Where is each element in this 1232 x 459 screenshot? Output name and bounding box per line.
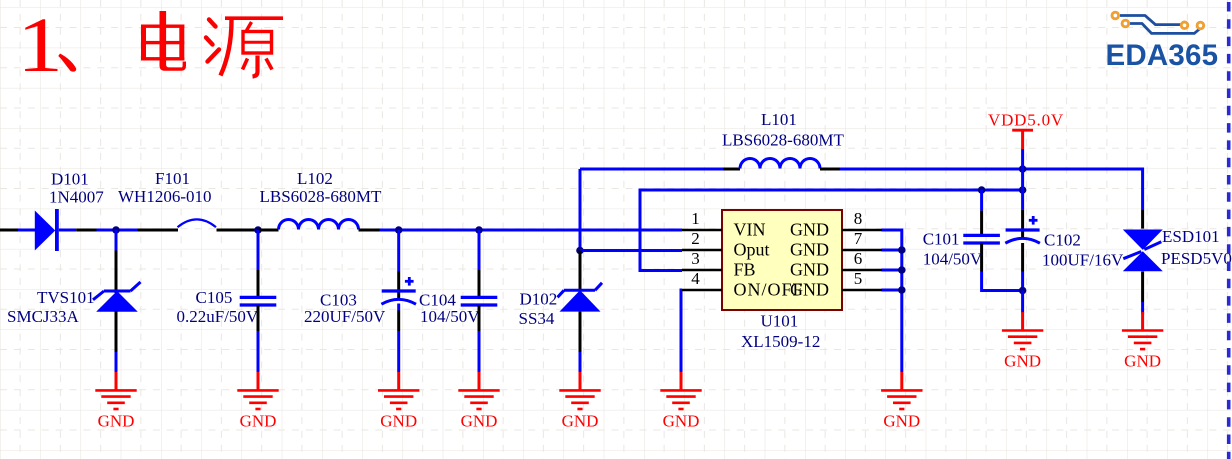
junction output gnd node	[1019, 287, 1027, 295]
ground GND C104	[458, 372, 499, 431]
power flag VDD5.0V	[1012, 130, 1033, 170]
title ideographic comma	[58, 54, 76, 72]
junction node D at C104	[475, 226, 483, 234]
svg-text:7: 7	[854, 229, 863, 248]
junction pin7	[898, 246, 906, 254]
wire switch node vertical from top rail to D102	[579, 169, 582, 251]
svg-text:L101: L101	[761, 110, 797, 129]
wire U101 pin7 stub	[882, 249, 902, 252]
wire TVS101 to ground	[115, 352, 118, 372]
capacitor C101	[963, 235, 1000, 243]
wire VDD node down to FB line	[1021, 169, 1024, 190]
svg-text:C102: C102	[1044, 231, 1081, 250]
svg-text:VDD5.0V: VDD5.0V	[988, 111, 1064, 130]
ground GND U101 pins5-8	[881, 372, 922, 431]
ground GND D102	[559, 372, 600, 431]
pin C101 top	[980, 211, 983, 236]
junction pin5	[898, 286, 906, 294]
wire U101 pin5 stub	[882, 289, 902, 292]
junction switch node at D102	[576, 247, 584, 255]
svg-text:GND: GND	[790, 280, 829, 300]
ground GND C103	[378, 372, 419, 431]
wire C101 bottom to output gnd node	[982, 272, 1023, 291]
svg-text:F101: F101	[155, 169, 190, 188]
svg-text:VIN: VIN	[734, 220, 766, 240]
wire output gnd node down	[1021, 291, 1024, 314]
pin TVS101 cathode	[115, 251, 118, 294]
wire FB feedback line	[640, 190, 1023, 271]
pin 6 line	[842, 269, 882, 272]
svg-text:GND: GND	[790, 240, 829, 260]
junction node C at C103	[395, 226, 403, 234]
TVS diode TVS101	[93, 282, 141, 312]
logo pad 3	[1181, 22, 1188, 29]
junction node A	[112, 226, 120, 234]
wire ESD101 to ground	[1141, 302, 1144, 314]
ground GND ESD101	[1122, 312, 1163, 371]
svg-text:100UF/16V: 100UF/16V	[1042, 251, 1124, 270]
svg-text:XL1509-12: XL1509-12	[741, 332, 820, 351]
inductor L102	[257, 220, 380, 231]
wire switch node to U101 pin2	[580, 249, 682, 252]
svg-text:6: 6	[854, 249, 863, 268]
wire L102 to U101 pin1 VIN rail	[380, 229, 683, 232]
wire node A down to TVS101	[115, 230, 118, 251]
wire L101 to VDD node and ESD101	[840, 169, 1143, 210]
pin 8 line	[842, 229, 882, 232]
diode D102	[558, 283, 603, 312]
pin C102 top	[1021, 210, 1024, 237]
svg-text:1N4007: 1N4007	[49, 188, 104, 207]
logo EDA365 trace lower	[1130, 24, 1200, 34]
junction FB at C102	[1019, 186, 1027, 194]
svg-text:0.22uF/50V: 0.22uF/50V	[177, 307, 259, 326]
pin C102 bottom	[1021, 243, 1024, 272]
title character yuan	[206, 18, 283, 76]
svg-text:3: 3	[691, 249, 700, 268]
svg-text:D102: D102	[520, 290, 558, 309]
pin C103 top	[397, 272, 400, 299]
pin TVS101 anode	[115, 311, 118, 352]
capacitor C102 polarized	[1005, 216, 1040, 243]
ground GND TVS101	[95, 372, 136, 431]
svg-text:WH1206-010: WH1206-010	[118, 187, 211, 206]
fuse F101	[138, 219, 258, 230]
pin C104 top	[478, 270, 481, 297]
logo EDA365 trace upper	[1120, 16, 1181, 25]
capacitor C104	[461, 297, 498, 305]
wire node C down to C103	[397, 230, 400, 272]
wire C102 bottom	[1021, 272, 1024, 291]
logo pad 2	[1122, 20, 1129, 27]
wire node B down to C105	[257, 230, 260, 270]
svg-text:1: 1	[691, 209, 700, 228]
IC U101 body	[722, 210, 842, 310]
svg-text:SS34: SS34	[519, 309, 555, 328]
pin 2 line	[682, 249, 722, 252]
pin C103 bottom	[397, 304, 400, 311]
wire U101 pin8 to gnd rail	[882, 230, 902, 372]
svg-text:ESD101: ESD101	[1162, 227, 1220, 246]
svg-text:4: 4	[691, 269, 700, 288]
wire C104 to ground	[478, 331, 481, 372]
svg-text:GND: GND	[790, 260, 829, 280]
pin C101 bottom	[980, 243, 983, 272]
junction VDD node	[1019, 165, 1027, 173]
wire D102 to ground	[579, 352, 582, 372]
pin D102 anode	[579, 312, 582, 352]
pin C105 top	[257, 270, 260, 297]
svg-text:104/50V: 104/50V	[923, 249, 983, 268]
pin 1 line	[682, 229, 722, 232]
svg-text:LBS6028-680MT: LBS6028-680MT	[722, 131, 844, 150]
inductor L101	[723, 159, 840, 170]
svg-text:FB: FB	[734, 260, 756, 280]
sheet boundary dashed line	[1227, 2, 1231, 459]
svg-text:SMCJ33A: SMCJ33A	[7, 307, 80, 326]
wire U101 pin6 stub	[882, 269, 902, 272]
svg-text:5: 5	[854, 269, 863, 288]
svg-text:C105: C105	[196, 288, 233, 307]
wire C103 to ground	[397, 331, 400, 372]
pin 4 line	[682, 289, 722, 292]
pin D102 cathode	[579, 251, 582, 291]
junction pin6	[898, 266, 906, 274]
svg-text:U101: U101	[761, 312, 799, 331]
capacitor C103 polarized	[381, 277, 416, 304]
svg-text:C101: C101	[923, 230, 960, 249]
svg-text:LBS6028-680MT: LBS6028-680MT	[260, 187, 382, 206]
logo pad 1	[1112, 12, 1119, 19]
pin C105 bottom	[257, 305, 260, 331]
wire node D down to C104	[478, 230, 481, 270]
svg-text:GND: GND	[790, 220, 829, 240]
wire C101 top	[980, 190, 983, 211]
svg-text:D101: D101	[51, 170, 89, 189]
wire input to D101 anode	[18, 229, 35, 232]
pin 3 line	[682, 269, 722, 272]
pin C104 bottom	[478, 305, 481, 331]
ground GND C105	[237, 372, 278, 431]
svg-text:2: 2	[691, 229, 700, 248]
svg-text:1: 1	[17, 2, 63, 88]
wire top from switch node to L101	[580, 168, 723, 171]
pin 7 line	[842, 249, 882, 252]
wire C105 to ground	[257, 331, 260, 372]
ground GND pin4	[660, 372, 701, 431]
svg-text:104/50V: 104/50V	[420, 307, 480, 326]
wire C102 top	[1021, 190, 1024, 210]
logo pad 4	[1197, 22, 1204, 29]
TVS diode ESD101	[1123, 230, 1163, 272]
junction FB at C101	[978, 186, 986, 194]
svg-text:L102: L102	[297, 169, 333, 188]
svg-text:Oput: Oput	[734, 240, 770, 260]
svg-text:EDA365: EDA365	[1106, 39, 1219, 72]
wire U101 pin4 to ground	[681, 290, 682, 372]
title character dian	[141, 11, 186, 71]
pin ESD101 top	[1141, 210, 1144, 229]
ground GND C101 C102	[1002, 312, 1043, 371]
capacitor C105	[240, 297, 277, 305]
wire D101 cathode to node A	[97, 229, 138, 232]
svg-text:PESD5V0: PESD5V0	[1161, 249, 1232, 268]
pin ESD101 bottom	[1141, 272, 1144, 303]
svg-text:TVS101: TVS101	[37, 288, 95, 307]
wire input stub	[0, 229, 18, 232]
svg-text:8: 8	[854, 209, 863, 228]
junction node B at C105	[254, 226, 262, 234]
svg-text:220UF/50V: 220UF/50V	[304, 307, 386, 326]
pin 5 line	[842, 289, 882, 292]
diode D101	[35, 209, 97, 251]
